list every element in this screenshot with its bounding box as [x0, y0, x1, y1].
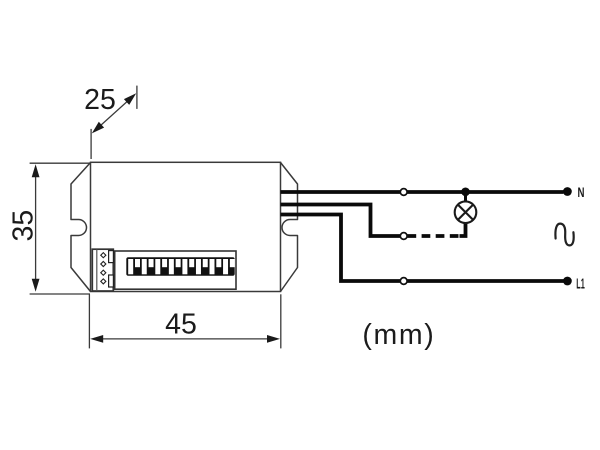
svg-text:35: 35 — [8, 210, 40, 242]
svg-text:N: N — [578, 184, 585, 200]
svg-text:45: 45 — [165, 308, 197, 340]
svg-text:(mm): (mm) — [362, 319, 436, 351]
svg-text:L1: L1 — [576, 277, 585, 293]
svg-text:25: 25 — [84, 84, 116, 116]
